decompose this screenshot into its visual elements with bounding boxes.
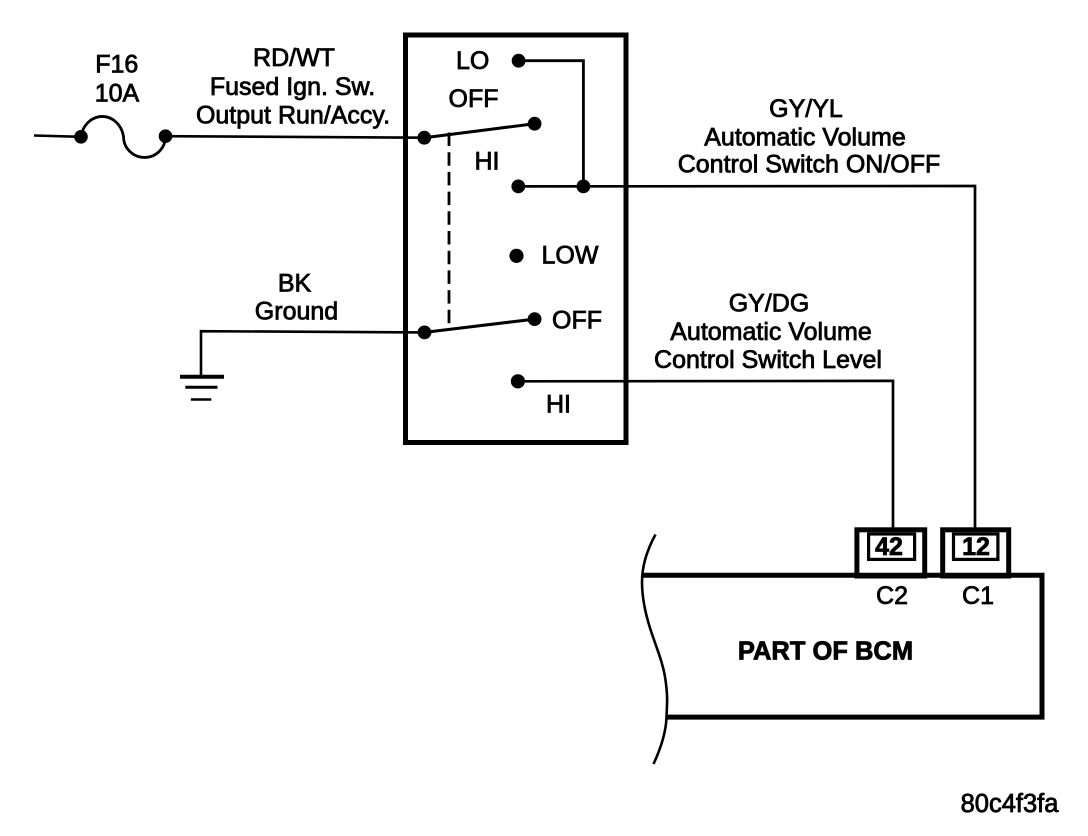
svg-text:Automatic Volume: Automatic Volume [670, 318, 872, 346]
svg-text:Output Run/Accy.: Output Run/Accy. [196, 102, 390, 130]
svg-text:OFF: OFF [449, 85, 499, 113]
svg-text:OFF: OFF [552, 307, 602, 335]
svg-text:F16: F16 [95, 51, 138, 79]
svg-text:PART OF BCM: PART OF BCM [738, 638, 913, 666]
svg-text:HI: HI [475, 148, 500, 176]
svg-text:LO: LO [456, 47, 489, 75]
svg-text:RD/WT: RD/WT [253, 44, 335, 72]
svg-text:GY/DG: GY/DG [729, 290, 810, 318]
svg-text:HI: HI [546, 391, 571, 419]
svg-text:42: 42 [875, 533, 903, 561]
svg-text:Automatic Volume: Automatic Volume [704, 124, 906, 152]
svg-text:12: 12 [962, 533, 990, 561]
svg-text:GY/YL: GY/YL [769, 95, 843, 123]
svg-text:Fused Ign. Sw.: Fused Ign. Sw. [210, 73, 375, 101]
svg-text:BK: BK [278, 270, 312, 298]
svg-text:80c4f3fa: 80c4f3fa [961, 790, 1060, 818]
svg-text:Ground: Ground [255, 298, 338, 326]
svg-text:10A: 10A [95, 80, 140, 108]
svg-text:LOW: LOW [542, 242, 599, 270]
svg-text:C1: C1 [962, 582, 994, 610]
svg-text:Control Switch ON/OFF: Control Switch ON/OFF [678, 151, 941, 179]
svg-text:C2: C2 [876, 582, 908, 610]
svg-text:Control Switch Level: Control Switch Level [654, 346, 882, 374]
